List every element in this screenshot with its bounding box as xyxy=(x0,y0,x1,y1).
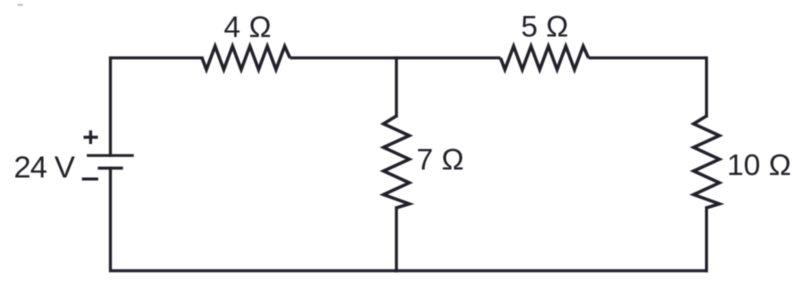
wire middle vertical bottom lead xyxy=(395,208,398,271)
wire right vertical top lead xyxy=(705,58,708,116)
resistor R1 4 ohm zigzag xyxy=(202,46,290,69)
svg-text:10 Ω: 10 Ω xyxy=(727,149,791,182)
wire top right segment xyxy=(589,56,707,59)
resistor R4 10 ohm zigzag xyxy=(694,116,720,208)
wire left vertical (battery branch) xyxy=(110,58,202,156)
resistor R3 7 ohm zigzag xyxy=(384,116,410,208)
wire top middle segment xyxy=(290,56,501,59)
wire right vertical bottom lead xyxy=(705,208,708,271)
wire middle vertical top lead xyxy=(395,58,398,116)
battery V1 long plate (+) xyxy=(87,154,134,157)
svg-text:4 Ω: 4 Ω xyxy=(224,11,271,44)
wire left vertical lower (battery to bottom) xyxy=(110,168,396,271)
svg-text:24 V: 24 V xyxy=(14,150,76,185)
svg-text:5 Ω: 5 Ω xyxy=(521,11,568,44)
resistor R2 5 ohm zigzag xyxy=(501,46,589,69)
svg-text:7 Ω: 7 Ω xyxy=(417,144,464,177)
battery V1 short plate (-) xyxy=(98,167,123,170)
battery + terminal sign xyxy=(84,130,98,144)
wire bottom right segment xyxy=(396,269,706,272)
battery - terminal sign xyxy=(82,178,98,181)
stray faint dash top-left xyxy=(18,4,24,6)
